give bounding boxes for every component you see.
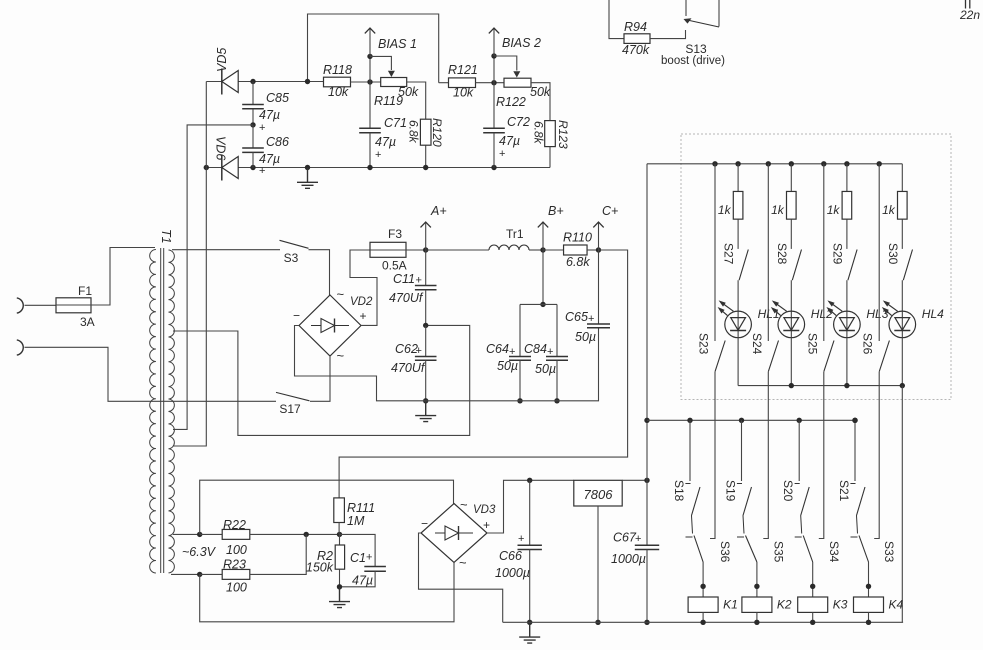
svg-text:S23: S23 — [697, 333, 711, 355]
LED HL4 — [889, 311, 916, 338]
svg-text:BIAS 1: BIAS 1 — [378, 37, 417, 51]
wire R119 to R120 — [407, 82, 426, 119]
svg-text:6.8k: 6.8k — [407, 120, 421, 144]
diode VD5 — [221, 69, 223, 95]
svg-text:S25: S25 — [805, 333, 819, 355]
svg-text:S18: S18 — [672, 480, 686, 502]
node C66 ground — [527, 620, 532, 625]
svg-text:C11: C11 — [393, 272, 415, 286]
switch S13 — [685, 0, 687, 16]
node rail right end — [852, 418, 857, 423]
svg-text:S17: S17 — [279, 402, 301, 416]
wire VD3 bottom to ac return — [200, 563, 454, 622]
node A+ — [423, 247, 428, 252]
node relay K2 ground — [754, 620, 759, 625]
resistor R111 — [334, 498, 345, 523]
wire secondary tap to C62 link — [173, 325, 470, 435]
node bus resistor branch 2 — [789, 161, 794, 166]
wire relay K4 to ground — [868, 612, 870, 622]
svg-text:R23: R23 — [223, 558, 246, 572]
wire mid ground rail — [426, 328, 599, 401]
wire C+ to R111 feed — [339, 250, 627, 498]
wire relay K2 to ground — [756, 612, 758, 622]
ground C62 — [415, 401, 436, 422]
svg-text:47µ: 47µ — [499, 134, 520, 148]
wire S18 pole — [686, 516, 693, 538]
svg-text:50k: 50k — [530, 85, 551, 99]
svg-text:BIAS 2: BIAS 2 — [502, 36, 541, 50]
svg-text:S28: S28 — [775, 243, 789, 265]
svg-text:1000µ: 1000µ — [495, 566, 530, 580]
svg-text:S21: S21 — [837, 480, 851, 502]
capacitor C67 — [646, 480, 648, 545]
capacitor C71 — [369, 82, 371, 128]
wire VD5-VD6 anode column to transformer tap — [173, 82, 206, 447]
svg-text:VD5: VD5 — [215, 48, 229, 72]
svg-text:1k: 1k — [718, 203, 732, 217]
wire VD3 plus to regulator — [487, 480, 574, 533]
wire BIAS2 vertical — [493, 56, 495, 83]
svg-text:+: + — [259, 165, 265, 177]
svg-text:3A: 3A — [80, 315, 95, 329]
resistor R121 — [439, 82, 449, 84]
svg-text:K4: K4 — [889, 598, 904, 612]
wire VD2 bottom to S17 — [310, 356, 330, 401]
svg-text:~: ~ — [337, 287, 345, 302]
node R121-R122-C72 junction — [491, 80, 496, 85]
wire S36 to relay — [702, 562, 704, 597]
wire R122 to R123 — [531, 83, 550, 121]
resistor 1k #4 — [901, 164, 903, 192]
svg-text:C71: C71 — [384, 116, 407, 130]
svg-text:C72: C72 — [507, 115, 530, 129]
wire +6V riser — [646, 164, 648, 481]
svg-text:R111: R111 — [347, 501, 375, 515]
switch S34 changeover — [803, 536, 813, 563]
arrow BIAS 1 — [369, 28, 371, 56]
wire S19 upper — [741, 420, 743, 481]
wire LED HL2 cathode — [790, 338, 792, 386]
arrow C+ — [598, 222, 600, 250]
relay K1 — [688, 597, 718, 612]
svg-text:+: + — [588, 313, 594, 325]
wire B+ to C64-C84 loop — [542, 250, 544, 304]
arrow BIAS 2 — [493, 28, 495, 56]
svg-text:S34: S34 — [827, 541, 841, 563]
arrow B+ — [542, 222, 544, 250]
wire S23 lower — [710, 372, 715, 539]
fuse F1 — [56, 298, 91, 313]
wire relay K1 to ground — [702, 612, 704, 622]
node relay K1 ground — [700, 620, 705, 625]
svg-text:S29: S29 — [830, 243, 844, 265]
wire dc ground rail — [503, 621, 903, 623]
wire F3 to A+ node — [406, 249, 426, 251]
wire S3 to VD2 top — [309, 250, 330, 295]
node relay K4 ground — [866, 620, 871, 625]
wire LED return bus — [738, 385, 902, 387]
wire top rail bypass — [308, 14, 439, 83]
svg-text:F1: F1 — [78, 284, 92, 298]
svg-text:1k: 1k — [882, 203, 896, 217]
wire R118 to R119 — [351, 81, 381, 83]
svg-text:S33: S33 — [882, 541, 896, 563]
fuse F3 — [370, 242, 406, 257]
switch S24 — [768, 341, 778, 372]
capacitor C85 — [252, 82, 254, 105]
node BIAS2 — [491, 53, 496, 58]
node LED return HL2 — [789, 383, 794, 388]
wire 7806 output — [622, 479, 647, 481]
svg-text:+: + — [547, 346, 553, 358]
transformer T1 core — [161, 248, 164, 573]
svg-text:VD3: VD3 — [473, 504, 496, 516]
svg-text:+: + — [635, 533, 641, 545]
node VD6 left — [204, 165, 209, 170]
svg-text:VD2: VD2 — [350, 296, 373, 308]
svg-text:1M: 1M — [347, 514, 365, 528]
node bus resistor branch 3 — [844, 161, 849, 166]
input terminal N — [17, 340, 23, 355]
node R22 left — [197, 532, 202, 537]
svg-text:+: + — [499, 148, 505, 160]
wire S25 upper — [823, 164, 825, 341]
capacitor C66 — [527, 478, 532, 483]
svg-text:1k: 1k — [771, 203, 785, 217]
svg-text:+: + — [360, 309, 367, 323]
wire bias ground rail — [206, 167, 550, 169]
wire R23 up to node — [250, 534, 306, 574]
wire R22 to node — [250, 533, 340, 535]
svg-text:C66: C66 — [499, 549, 522, 563]
svg-text:K1: K1 — [723, 598, 738, 612]
wire S26 upper — [878, 164, 880, 341]
svg-text:~: ~ — [337, 348, 345, 363]
resistor R118 — [324, 77, 351, 87]
resistor R2 — [339, 534, 341, 545]
transformer T1 primary winding — [150, 250, 156, 573]
node R23 left — [197, 572, 202, 577]
svg-text:150k: 150k — [306, 561, 334, 575]
dotted enclosure — [681, 134, 951, 400]
switch S17 — [276, 392, 310, 400]
svg-text:C1: C1 — [350, 551, 366, 565]
svg-text:C84: C84 — [524, 342, 547, 356]
wire R111 to node — [338, 523, 340, 535]
node relay K4 top — [866, 584, 871, 589]
node bus resistor branch 1 — [735, 161, 740, 166]
resistor 1k #2 — [790, 164, 792, 192]
wire relay K3 to ground — [812, 612, 814, 622]
svg-text:C67: C67 — [613, 531, 637, 545]
node LED return HL3 — [844, 383, 849, 388]
switch S36 changeover — [694, 536, 703, 563]
node B+ — [540, 247, 545, 252]
svg-text:50µ: 50µ — [535, 362, 556, 376]
svg-text:−: − — [421, 517, 428, 531]
svg-text:1k: 1k — [827, 203, 841, 217]
switch S30 — [903, 250, 912, 281]
wire A+ to Tr1 — [426, 249, 489, 251]
node relay K3 top — [810, 584, 815, 589]
resistor R123 — [545, 121, 556, 147]
potentiometer R119 — [381, 78, 407, 87]
node R22-R23 join — [304, 532, 309, 537]
svg-text:boost (drive): boost (drive) — [661, 55, 725, 67]
resistor R120 — [420, 119, 431, 145]
svg-text:C+: C+ — [602, 204, 618, 218]
wire VD3 minus to dc ground — [419, 533, 503, 622]
svg-text:Tr1: Tr1 — [506, 227, 524, 241]
switch S33 changeover — [859, 536, 869, 563]
svg-text:R118: R118 — [323, 63, 352, 77]
svg-text:R94: R94 — [624, 20, 647, 34]
svg-text:470Uf: 470Uf — [391, 361, 426, 375]
svg-text:VD6: VD6 — [214, 136, 228, 160]
wire S35 to relay — [756, 562, 758, 597]
capacitor 22n — [966, 0, 970, 9]
svg-text:R121: R121 — [448, 63, 478, 77]
wire S20 pole — [795, 516, 802, 538]
wire R94 to S13 — [650, 30, 686, 39]
node 7806 output junction — [644, 478, 649, 483]
svg-text:7806: 7806 — [584, 487, 614, 502]
switch S29 — [848, 250, 857, 281]
node R118-R119-C71 junction — [367, 79, 372, 84]
svg-text:T1: T1 — [159, 229, 173, 244]
wire S30 to LED — [901, 280, 903, 311]
node R120 bottom — [423, 165, 428, 170]
resistor R94 — [624, 34, 650, 44]
relay K3 — [798, 597, 828, 612]
capacitor C1 — [340, 534, 376, 566]
node rail S20 — [797, 418, 802, 423]
wire 7806 ground pin — [597, 506, 599, 622]
wire 1k to S30 — [901, 219, 903, 249]
node rail ground — [305, 165, 310, 170]
svg-text:6.8k: 6.8k — [566, 255, 590, 269]
node C85-C86 junction — [250, 122, 255, 127]
svg-text:S36: S36 — [718, 541, 732, 563]
node C67 ground — [644, 620, 649, 625]
node LED return corner — [900, 383, 905, 388]
wire S24 lower — [763, 372, 768, 539]
node relay K1 top — [700, 584, 705, 589]
node bus S25 branch — [821, 161, 826, 166]
wire R123 to rail — [549, 147, 551, 168]
svg-text:+: + — [366, 552, 372, 564]
switch S19 — [743, 487, 752, 516]
wire R94 left vertical — [609, 0, 624, 39]
svg-text:~: ~ — [460, 497, 468, 512]
svg-text:100: 100 — [226, 543, 247, 557]
input terminal L — [17, 298, 23, 313]
wire LED supply bus — [647, 163, 902, 165]
potentiometer R122 — [504, 78, 531, 87]
svg-text:100: 100 — [226, 581, 247, 595]
svg-text:S13: S13 — [685, 42, 707, 56]
wire F1 to primary top — [91, 248, 155, 306]
svg-text:S35: S35 — [771, 541, 785, 563]
wire terminal N to S17 — [25, 347, 277, 401]
node C86 bottom — [250, 165, 255, 170]
node C84 bottom — [554, 398, 559, 403]
svg-text:S27: S27 — [722, 243, 736, 265]
bridge rectifier VD2 — [299, 295, 361, 356]
switch S27 — [739, 250, 748, 281]
svg-text:+: + — [416, 345, 422, 357]
svg-text:K3: K3 — [833, 598, 848, 612]
node rail S19 — [739, 418, 744, 423]
ground bias rail — [297, 168, 318, 189]
svg-text:10k: 10k — [453, 86, 474, 100]
switch S20 — [801, 487, 810, 516]
svg-text:S19: S19 — [724, 480, 738, 502]
svg-text:0.5A: 0.5A — [382, 259, 407, 273]
capacitor C86 — [252, 125, 254, 148]
node relay rail junction — [644, 418, 649, 423]
wire R110 to C+ node — [587, 249, 599, 251]
wire R2 to ground node — [339, 569, 341, 587]
LED HL3 — [834, 311, 861, 338]
resistor 1k #1 — [737, 164, 739, 192]
wire 1k to S28 — [790, 219, 792, 249]
switch S21 — [857, 487, 866, 516]
node C11-C62 junction — [423, 323, 428, 328]
svg-text:R110: R110 — [563, 231, 592, 245]
wire 1k to S29 — [846, 219, 848, 249]
wire S25 lower — [819, 372, 824, 539]
svg-text:R120: R120 — [430, 118, 444, 147]
wire LED HL3 cathode — [846, 338, 848, 386]
node VD5-C85 junction — [250, 79, 255, 84]
node bus S26 branch — [877, 161, 882, 166]
svg-text:R22: R22 — [223, 518, 246, 532]
wire terminal L to F1 — [25, 304, 57, 306]
wire 1k to S27 — [737, 219, 739, 249]
svg-text:R122: R122 — [496, 95, 526, 109]
wire relay supply rail — [647, 419, 855, 421]
switch S23 — [715, 341, 725, 372]
svg-text:C86: C86 — [266, 135, 289, 149]
wire S23 upper — [714, 164, 716, 341]
wire BIAS1 node vertical — [369, 56, 371, 82]
svg-text:470k: 470k — [622, 43, 650, 57]
node relay K2 top — [754, 584, 759, 589]
svg-text:50µ: 50µ — [575, 330, 596, 344]
switch S3 — [280, 240, 309, 248]
svg-text:S26: S26 — [861, 333, 875, 355]
svg-text:~: ~ — [459, 555, 467, 570]
node BIAS1 — [367, 54, 372, 59]
wire VD2 plus to F3 — [350, 250, 377, 325]
node rail S21 — [852, 418, 857, 423]
LED HL1 — [725, 311, 752, 338]
svg-text:B+: B+ — [548, 204, 564, 218]
node rail S18 — [687, 418, 692, 423]
svg-text:C85: C85 — [266, 91, 289, 105]
svg-text:6.8k: 6.8k — [532, 121, 546, 145]
relay K4 — [854, 597, 884, 612]
node bus S23 branch — [712, 161, 717, 166]
svg-text:47µ: 47µ — [352, 574, 373, 588]
node C64 bottom — [517, 398, 522, 403]
wire S21 upper — [854, 420, 856, 481]
wire secondary 6.3V top tap — [173, 533, 200, 535]
svg-text:−: − — [293, 309, 300, 323]
svg-text:C64: C64 — [486, 342, 509, 356]
switch S26 — [879, 341, 889, 372]
wire S33 to relay — [868, 562, 870, 597]
bridge rectifier VD3 — [421, 504, 487, 563]
relay K2 — [742, 597, 772, 612]
node relay K3 ground — [810, 620, 815, 625]
node C72 bottom — [491, 165, 496, 170]
wire LED return to ground rail — [901, 386, 903, 623]
svg-text:R119: R119 — [374, 94, 403, 108]
transformer T1 secondary winding — [169, 250, 175, 573]
svg-text:+: + — [483, 518, 490, 532]
wire S34 to relay — [812, 562, 814, 597]
wire S19 pole — [737, 516, 744, 538]
svg-text:S30: S30 — [886, 243, 900, 265]
wire S18 upper — [689, 420, 691, 481]
inductor Tr1 — [489, 245, 529, 250]
LED HL2 — [778, 311, 805, 338]
svg-text:S24: S24 — [750, 333, 764, 355]
svg-text:+: + — [416, 275, 422, 287]
capacitor C72 — [493, 83, 495, 129]
wire S26 lower — [874, 372, 879, 539]
wire VD5 row — [206, 81, 324, 83]
node R2-C1 ground — [337, 584, 342, 589]
regulator 7806 — [574, 480, 622, 506]
node bus S24 branch — [766, 161, 771, 166]
switch S18 — [692, 487, 701, 516]
switch S25 — [824, 341, 834, 372]
capacitor C64 — [519, 304, 521, 356]
resistor R22 — [200, 533, 223, 535]
wire S28 to LED — [790, 280, 792, 311]
wire LED HL4 cathode — [901, 338, 903, 386]
wire S29 to LED — [846, 280, 848, 311]
wire VD2 minus to ground rail — [295, 326, 426, 401]
svg-text:+: + — [518, 533, 524, 545]
wire secondary 6.3V bottom tap — [171, 573, 200, 575]
wire R120 to rail — [425, 146, 427, 168]
svg-text:HL4: HL4 — [922, 307, 944, 321]
svg-text:47µ: 47µ — [259, 152, 280, 166]
capacitor C84 — [556, 304, 558, 356]
node C+ — [596, 247, 601, 252]
svg-text:K2: K2 — [777, 598, 792, 612]
svg-text:R123: R123 — [556, 120, 570, 149]
wiper arrow R119 — [370, 56, 391, 70]
node top-rail junction — [305, 79, 310, 84]
wire S21 pole — [851, 516, 858, 538]
diode VD6 — [221, 155, 223, 181]
arrow A+ — [425, 222, 427, 250]
wire R121 to R122 — [476, 82, 505, 84]
capacitor C11 — [425, 250, 427, 286]
svg-text:10k: 10k — [328, 85, 349, 99]
svg-text:47µ: 47µ — [375, 135, 396, 149]
switch S35 changeover — [746, 536, 757, 563]
svg-text:F3: F3 — [388, 227, 402, 241]
wire tap to VD3 top — [200, 480, 454, 534]
capacitor C62 — [425, 325, 427, 356]
svg-text:22n: 22n — [959, 8, 980, 22]
